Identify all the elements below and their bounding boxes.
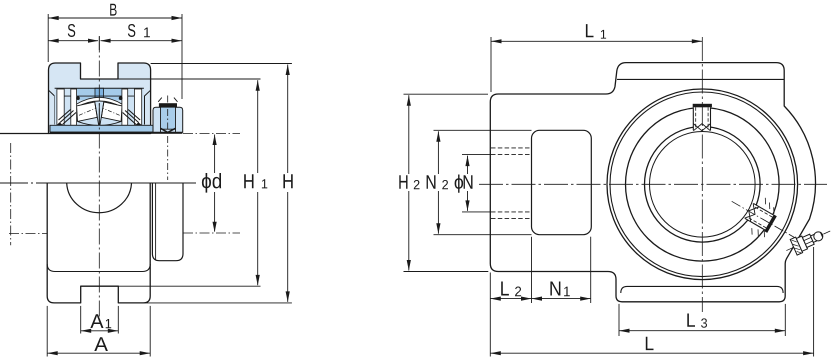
seal lip nubs xyxy=(57,122,64,125)
center vertical axis xyxy=(701,37,703,312)
dimension N1 xyxy=(532,298,591,300)
roller axes xyxy=(79,108,96,115)
housing side chamfers xyxy=(49,90,55,124)
frame block (lower, outside view) xyxy=(47,183,150,303)
block cast step line xyxy=(47,264,150,272)
dimension L1 xyxy=(490,37,492,92)
dimension A xyxy=(46,306,48,357)
collar screw barrel xyxy=(161,105,176,129)
2nd screw axis xyxy=(732,201,801,241)
housing bore line xyxy=(55,87,144,89)
dimension A1 xyxy=(80,306,82,334)
dimension S xyxy=(48,40,98,42)
shaft aux centerline vertical xyxy=(10,143,12,245)
dimension B xyxy=(48,17,182,19)
set screw (2nd, at 120deg) xyxy=(739,194,782,241)
L2 N1 extension lines xyxy=(531,237,533,303)
outer ring OD line xyxy=(64,95,134,97)
collar screw cap xyxy=(159,103,177,107)
housing (take-up unit body, sectioned, pale blue) xyxy=(49,63,151,134)
bore bulge arc xyxy=(67,183,132,212)
inner raceway smile xyxy=(78,121,122,125)
block top edge xyxy=(47,182,190,184)
H extension lines xyxy=(151,63,292,65)
outer ring blue band xyxy=(77,88,122,100)
boss pad (rounded rect) xyxy=(532,130,592,234)
bearing circles xyxy=(607,89,798,280)
collar cap ticks xyxy=(158,98,177,102)
dimension L2 xyxy=(490,298,531,300)
outer ring raceway arcs xyxy=(76,97,123,107)
inner ring strip xyxy=(50,125,182,132)
top face front edge line xyxy=(617,78,784,80)
dimension N2 xyxy=(437,131,439,174)
center horizontal axis xyxy=(479,183,827,185)
collar screw axis xyxy=(167,96,169,181)
seal hatch left xyxy=(59,110,77,125)
N2 extension lines xyxy=(434,129,532,131)
seal posts left xyxy=(57,89,64,125)
dimension L xyxy=(490,352,813,354)
H2 extension lines xyxy=(404,93,489,95)
phiN extension lines xyxy=(462,154,491,156)
grease hole xyxy=(95,88,104,98)
extension lines top xyxy=(47,14,49,62)
grease nipple xyxy=(783,223,832,258)
dimension phi-d xyxy=(183,133,240,135)
center vertical axis xyxy=(98,37,100,323)
collar screw cup point xyxy=(161,128,176,132)
set screw (top) xyxy=(693,104,712,131)
seal posts right xyxy=(122,89,128,125)
dimension H xyxy=(287,65,289,174)
hidden slot lines xyxy=(491,147,532,149)
shaft top line xyxy=(0,133,49,135)
dimension L3 xyxy=(619,330,785,332)
L extension lines xyxy=(489,273,491,357)
L3 extension lines xyxy=(618,304,620,336)
H1 extension lines xyxy=(118,78,261,80)
roller right xyxy=(101,102,122,122)
inner ring rib V xyxy=(95,102,104,127)
dimension H1 xyxy=(257,80,259,173)
seal contact dots xyxy=(76,96,80,100)
frame outline xyxy=(490,63,815,302)
seal hatch right xyxy=(123,110,141,125)
shaft axis (long) xyxy=(0,182,196,184)
bottom slot line xyxy=(621,286,783,293)
dimension S1 xyxy=(101,40,182,42)
shaft aux centerline horizontal xyxy=(9,233,47,235)
set screw collar (upper half) xyxy=(153,107,183,132)
roller left xyxy=(77,102,98,122)
dimension H2 xyxy=(408,95,410,174)
dimension phiN xyxy=(467,156,469,174)
bearing cavity xyxy=(55,88,144,133)
collar lower half xyxy=(152,183,183,260)
